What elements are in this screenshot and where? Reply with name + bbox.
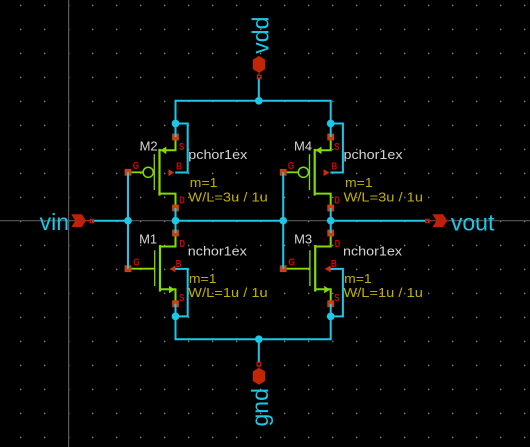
junction M3 source-bulk [327,313,335,321]
svg-text:M3: M3 [294,232,312,247]
wire gnd stub [258,339,260,362]
svg-text:gnd: gnd [247,388,273,426]
wire vin [94,220,128,222]
wire vout [331,220,426,222]
junction M4 source-bulk [327,120,335,128]
svg-text:m=1: m=1 [189,271,217,286]
wire gate column stage 2 [282,172,284,268]
svg-text:nchor1ex: nchor1ex [188,244,248,259]
svg-text:m=1: m=1 [190,175,218,190]
svg-text:m=1: m=1 [345,175,373,190]
svg-text:M1: M1 [139,232,157,247]
transistor M1 nchor1ex [125,230,185,308]
svg-text:nchor1ex: nchor1ex [343,244,403,259]
junction vdd [255,97,263,105]
pin gnd hexagon [253,368,265,385]
wire stage1 out to stage2 in [176,220,284,222]
wire drain column stage 1 [175,208,177,233]
svg-text:vdd: vdd [247,17,273,54]
wire vdd stub [258,78,260,101]
x axis line [0,220,530,222]
pin vout flag [426,219,429,222]
junction gnd [255,335,263,343]
junction drain1 [172,217,180,225]
svg-text:m=1: m=1 [344,271,372,286]
transistor M4 pchor1ex [280,134,340,212]
junction M1 source-bulk [172,313,180,321]
transistor M2 pchor1ex [125,134,185,212]
junction gate2 [279,217,287,225]
svg-text:vout: vout [451,209,495,235]
pin vdd hexagon [253,56,265,73]
wire gnd rail bottom [176,304,331,339]
svg-text:W/L=3u / 1u: W/L=3u / 1u [188,190,267,205]
y axis line [68,0,70,447]
svg-text:W/L=3u / 1u: W/L=3u / 1u [344,190,424,205]
svg-text:pchor1ex: pchor1ex [188,147,248,162]
wire gate column stage 1 [127,172,129,268]
wire vdd rail top [176,101,331,137]
svg-text:W/L=1u / 1u: W/L=1u / 1u [188,285,268,300]
wire M2 bulk loop [175,124,188,173]
wire M3 bulk loop [330,269,343,317]
svg-text:vin: vin [40,209,69,235]
pin vin flag [71,214,86,227]
wire M1 bulk loop [175,269,188,317]
junction M2 source-bulk [172,120,180,128]
junction vin-gate1 [124,217,132,225]
svg-text:M4: M4 [294,138,312,153]
transistor M3 nchor1ex [280,230,340,308]
junction drain2 [327,217,335,225]
wire drain column stage 2 [330,208,332,233]
wire M4 bulk loop [330,124,343,173]
svg-text:M2: M2 [140,138,158,153]
svg-text:W/L=1u / 1u: W/L=1u / 1u [343,285,423,300]
svg-text:pchor1ex: pchor1ex [344,147,404,162]
